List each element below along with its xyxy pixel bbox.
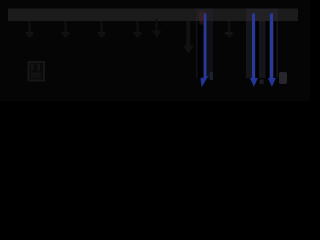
gray glyph label right of P3 head (279, 72, 287, 84)
load arrow F1 (25, 21, 35, 38)
force arrow P1 top marker (maroon) (199, 12, 206, 22)
force arrow P3 shaft right (black) (274, 21, 277, 78)
beam (horizontal slab) (8, 9, 298, 22)
force arrow P2 head (blue) (250, 78, 258, 87)
force arrow P3 head (blue) (268, 78, 276, 87)
selection tint around P1 (196, 21, 213, 78)
load arrow F3 (97, 21, 107, 38)
force arrow P3 shaft left (black) (266, 21, 270, 78)
force arrow P2 shaft (black) (256, 21, 260, 78)
force arrow P1 head (blue) (200, 76, 208, 87)
load arrow F7 (225, 21, 235, 38)
force arrow P2 highlight shaft (blue) (252, 14, 255, 80)
small tag right of P1 head (210, 72, 214, 80)
force arrow P1 shaft (black) (198, 21, 204, 78)
load arrow F2 (61, 21, 71, 38)
support square symbol (29, 62, 45, 81)
force arrow P3 highlight shaft (blue) (270, 14, 273, 80)
load arrow F4 (133, 21, 143, 38)
load arrow F5 (152, 19, 162, 38)
force arrow P1 highlight shaft (blue) (204, 14, 207, 79)
selection tint region (246, 21, 278, 78)
small dot between heads (260, 80, 264, 85)
medium load arrow F6 (183, 21, 194, 54)
